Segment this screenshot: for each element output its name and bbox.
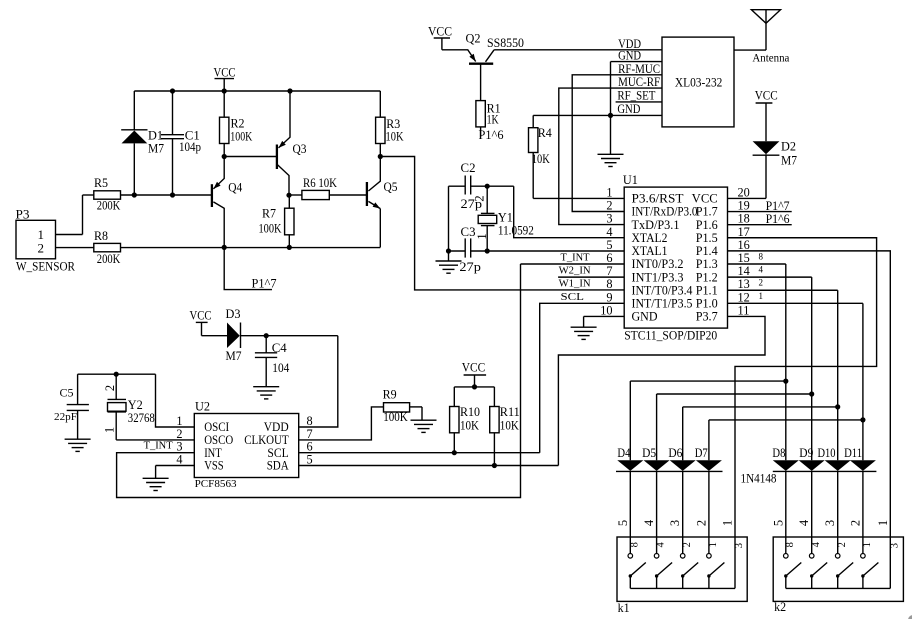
module XL03-232 box <box>662 37 734 127</box>
ground (R9) <box>411 407 437 433</box>
svg-text:4: 4 <box>656 541 667 547</box>
svg-text:8: 8 <box>307 414 313 428</box>
wire XTAL1 rail to U1 pin5 <box>449 250 625 252</box>
svg-text:8: 8 <box>759 252 764 262</box>
ground (U2 VSS) <box>143 478 169 490</box>
wire U1 pin17 to k1 common <box>728 238 877 537</box>
net label T_INT (U1 pin6) <box>561 252 590 264</box>
svg-text:2: 2 <box>848 520 862 526</box>
wire U1 pin10 GND <box>584 316 625 327</box>
junction Q3-collector/R6/R7 <box>286 193 291 198</box>
svg-text:200K: 200K <box>97 198 121 213</box>
crystal Y2 32768 <box>103 374 155 440</box>
wire MUC-RF to U1 pin3 <box>559 88 662 225</box>
junction R2/Q4/Q3-base <box>222 154 227 159</box>
svg-text:2: 2 <box>606 199 612 213</box>
wire GND1 to ground <box>610 62 612 155</box>
svg-text:14: 14 <box>738 264 750 278</box>
switch block k1 box <box>617 537 747 615</box>
switch block k1 internals <box>628 537 745 588</box>
diode D4 1N4148 <box>617 445 643 537</box>
svg-text:2: 2 <box>759 278 764 288</box>
IC U1 subtitle <box>624 329 717 343</box>
junction VCC/R10/R11 <box>472 384 477 389</box>
diode D7 1N4148 <box>695 445 722 537</box>
svg-text:8: 8 <box>629 542 640 547</box>
capacitor C4 104 <box>255 336 290 387</box>
junction Q4/bottom-rail/P1^7 <box>222 245 227 250</box>
svg-text:U2: U2 <box>195 399 210 414</box>
junction rail/C1 <box>170 88 175 93</box>
node P1^7 label (pin19) <box>766 198 790 213</box>
diode D1 <box>121 91 164 195</box>
wire RF-MUC to U1 pin2 <box>572 75 662 212</box>
switch block k2 box <box>773 537 903 614</box>
antenna <box>734 10 790 65</box>
svg-text:P1.5: P1.5 <box>696 231 718 245</box>
svg-text:P3.7: P3.7 <box>696 310 718 324</box>
svg-text:3: 3 <box>734 543 745 548</box>
svg-text:SS8550: SS8550 <box>487 35 524 50</box>
svg-text:PCF8563: PCF8563 <box>195 478 237 490</box>
node P1^7 label <box>252 276 277 291</box>
junction R10/SCL <box>452 450 457 455</box>
svg-text:1: 1 <box>103 427 117 433</box>
pin RF-MUC label <box>618 61 660 76</box>
svg-text:D8: D8 <box>772 445 785 460</box>
wire rail to U2 pin1 OSCI <box>156 374 195 427</box>
label 1N4148 <box>741 472 777 486</box>
svg-text:7: 7 <box>606 264 612 278</box>
junction R7/bottom-rail <box>287 245 292 250</box>
wire W2_IN stub <box>558 276 624 278</box>
svg-text:INT/RxD/P3.0: INT/RxD/P3.0 <box>632 205 698 219</box>
svg-text:27p: 27p <box>459 259 481 274</box>
IC U1 pin-name texts <box>632 192 718 324</box>
svg-text:10K: 10K <box>460 418 480 433</box>
pin MUC-RF label <box>618 74 660 89</box>
svg-text:T_INT: T_INT <box>144 439 173 451</box>
svg-text:32768: 32768 <box>128 411 155 425</box>
svg-text:2: 2 <box>473 195 487 201</box>
svg-text:1: 1 <box>708 542 719 547</box>
resistor R9 100K <box>383 387 422 424</box>
svg-text:2: 2 <box>38 240 45 255</box>
svg-text:1: 1 <box>176 414 182 428</box>
svg-text:M7: M7 <box>226 348 242 363</box>
capacitor C5 22pF <box>54 374 89 439</box>
net label W2_IN (U1 pin7) <box>559 265 591 277</box>
svg-text:INT/T1/P3.5: INT/T1/P3.5 <box>632 297 693 311</box>
svg-text:C5: C5 <box>60 388 74 400</box>
pin RF_SET label <box>617 88 655 103</box>
resistor R4 10K <box>529 115 553 198</box>
junction C3/ground <box>446 248 451 253</box>
svg-text:VSS: VSS <box>204 459 224 473</box>
diode D9 1N4148 <box>799 445 825 537</box>
resistor R1 1K <box>476 100 501 137</box>
svg-text:k2: k2 <box>774 599 786 614</box>
svg-text:D3: D3 <box>226 306 241 321</box>
wire U1 pin18 <box>728 224 792 226</box>
svg-text:4: 4 <box>176 453 182 467</box>
connector P3 W_SENSOR <box>16 207 76 274</box>
wire Y2 top rail <box>78 373 156 375</box>
svg-text:10: 10 <box>600 303 612 317</box>
svg-text:P1^6: P1^6 <box>766 211 790 226</box>
svg-text:1: 1 <box>759 291 764 301</box>
wire SCL U1 pin9 to U2 <box>540 303 625 452</box>
junction rail/R2 <box>222 88 227 93</box>
svg-text:10K: 10K <box>532 151 550 166</box>
IC U1 bit-weight labels 8/4/2/1 <box>759 252 764 301</box>
svg-text:M7: M7 <box>781 153 797 168</box>
junction Y1/XTAL1 rail <box>485 248 490 253</box>
wire R2 to Q3 base <box>224 156 276 158</box>
IC U2 subtitle <box>195 478 237 490</box>
wire U1 pin11 P3.7 to SDA <box>558 316 765 465</box>
svg-text:4: 4 <box>759 265 764 275</box>
svg-text:P1.6: P1.6 <box>696 218 718 232</box>
svg-text:100K: 100K <box>383 409 408 424</box>
junction pin15 branch <box>783 379 788 384</box>
wire P3 pin1 to R5 <box>56 234 83 236</box>
svg-text:R9: R9 <box>383 387 397 402</box>
svg-text:W1_IN: W1_IN <box>559 278 591 290</box>
svg-text:D10: D10 <box>818 445 836 460</box>
svg-text:Q2: Q2 <box>466 31 481 46</box>
junction pin12 branch <box>860 417 865 422</box>
ground (U1 pin10) <box>571 327 597 339</box>
svg-text:Q3: Q3 <box>293 141 307 156</box>
svg-text:Y2: Y2 <box>128 397 143 412</box>
svg-text:R5: R5 <box>94 175 108 190</box>
svg-text:k1: k1 <box>618 600 630 615</box>
svg-text:10K: 10K <box>500 418 520 433</box>
IC U1 pin numbers <box>600 185 750 317</box>
svg-text:16: 16 <box>738 238 750 252</box>
svg-text:4: 4 <box>797 519 811 526</box>
svg-text:T_INT: T_INT <box>561 252 590 264</box>
net label W1_IN (U1 pin8) <box>559 278 591 290</box>
svg-text:2: 2 <box>694 520 708 526</box>
svg-text:TxD/P3.1: TxD/P3.1 <box>632 218 680 232</box>
junction pin13 branch <box>835 404 840 409</box>
svg-text:P1.3: P1.3 <box>696 257 718 271</box>
resistor R7 100K <box>259 195 295 247</box>
svg-text:INT0/P3.2: INT0/P3.2 <box>632 257 684 271</box>
svg-text:100K: 100K <box>259 221 282 236</box>
svg-text:P1.1: P1.1 <box>696 283 718 297</box>
ground (C4) <box>253 387 279 399</box>
svg-text:104: 104 <box>272 360 289 375</box>
resistor R11 10K <box>490 387 520 466</box>
junction D1/base-wire <box>132 192 137 197</box>
IC U1 STC11 box <box>623 172 728 328</box>
svg-text:GND: GND <box>632 310 658 324</box>
wire SCL line U2 pin6 <box>299 452 540 454</box>
svg-text:P1^6: P1^6 <box>479 127 504 142</box>
pin VDD label <box>618 36 641 51</box>
svg-text:18: 18 <box>738 212 750 226</box>
svg-text:R4: R4 <box>538 125 552 140</box>
resistor R2 100K <box>220 91 253 157</box>
diode D5 1N4148 <box>642 445 670 537</box>
ground (C5) <box>65 439 91 451</box>
switch block k2 internals <box>784 537 901 588</box>
wire P1^7 stub <box>224 248 272 290</box>
transistor Q5 <box>367 157 398 248</box>
svg-text:11: 11 <box>738 303 750 317</box>
svg-text:P1.4: P1.4 <box>696 244 718 258</box>
svg-text:GND: GND <box>617 101 640 116</box>
svg-text:SDA: SDA <box>267 459 289 473</box>
svg-text:3: 3 <box>889 543 900 548</box>
svg-text:5: 5 <box>606 238 612 252</box>
junction Y2 rail <box>114 372 119 377</box>
svg-text:Y1: Y1 <box>498 210 513 225</box>
diode D8 1N4148 <box>772 445 798 537</box>
net label SCL (U1 pin9) <box>561 291 585 303</box>
net label T_INT (U2 pin3) <box>144 439 173 451</box>
svg-text:P3.6/RST: P3.6/RST <box>632 192 685 206</box>
pin GND label (upper) <box>618 48 641 63</box>
svg-text:12: 12 <box>738 290 750 304</box>
power VCC symbol (Q2) <box>428 23 452 50</box>
junction R3/Q5/W1_IN <box>378 154 383 159</box>
capacitor C1 <box>161 91 201 195</box>
svg-text:D9: D9 <box>799 445 813 460</box>
junction GND wires <box>608 113 613 118</box>
wire RF_SET stub <box>616 101 662 103</box>
svg-text:U1: U1 <box>623 172 638 187</box>
svg-text:W2_IN: W2_IN <box>559 265 591 277</box>
svg-text:3: 3 <box>606 212 612 226</box>
svg-text:P1.2: P1.2 <box>696 270 718 284</box>
svg-text:8: 8 <box>785 542 796 547</box>
wire U1 pin14 to diode columns <box>657 277 812 460</box>
svg-text:19: 19 <box>738 199 750 213</box>
wire C2/C3 left leg <box>448 186 450 251</box>
svg-text:4: 4 <box>811 541 822 547</box>
svg-text:200K: 200K <box>97 251 121 266</box>
svg-text:3: 3 <box>823 520 837 526</box>
svg-text:2: 2 <box>103 385 117 391</box>
svg-text:1: 1 <box>862 542 873 547</box>
wire T_INT U2 pin3 loop to U1 <box>117 264 521 498</box>
power VCC symbol (D3) <box>190 307 212 335</box>
svg-text:C3: C3 <box>461 224 476 239</box>
svg-text:STC11_SOP/DIP20: STC11_SOP/DIP20 <box>624 329 717 343</box>
wire GND2 pin to R4 <box>533 114 662 116</box>
svg-text:Antenna: Antenna <box>752 51 790 65</box>
svg-text:D2: D2 <box>781 139 796 154</box>
node P1^6 label (R1) <box>479 127 504 142</box>
svg-text:1: 1 <box>876 520 890 526</box>
wire R3 junction to U1 pin8 W1_IN <box>380 157 624 290</box>
svg-text:R6 10K: R6 10K <box>303 175 338 190</box>
resistor R8 200K <box>56 228 381 266</box>
svg-text:1N4148: 1N4148 <box>741 472 777 486</box>
svg-text:R7: R7 <box>262 205 276 220</box>
svg-text:D4: D4 <box>617 445 630 460</box>
svg-text:W_SENSOR: W_SENSOR <box>16 259 76 273</box>
svg-text:VCC: VCC <box>190 307 212 322</box>
svg-text:11.0592: 11.0592 <box>498 224 534 238</box>
svg-text:VCC: VCC <box>692 192 718 206</box>
wire C2 to U1 pin4 XTAL2 <box>514 186 625 238</box>
page corner artifact <box>908 615 912 619</box>
svg-text:INT1/P3.3: INT1/P3.3 <box>632 270 684 284</box>
svg-text:22pF: 22pF <box>54 412 77 423</box>
svg-text:1: 1 <box>606 185 612 199</box>
svg-text:P1.0: P1.0 <box>696 297 718 311</box>
svg-text:5: 5 <box>307 453 313 467</box>
svg-text:D6: D6 <box>668 445 682 460</box>
junction D3/C4 <box>264 333 269 338</box>
svg-text:13: 13 <box>738 277 750 291</box>
wire U1 pin20 VCC <box>728 197 767 199</box>
pin GND label (lower) <box>617 101 640 116</box>
crystal Y1 11.0592 <box>473 186 534 251</box>
svg-text:104p: 104p <box>179 139 201 154</box>
wire VCC rail top-left <box>134 90 380 92</box>
svg-text:2: 2 <box>682 542 693 547</box>
wire T_INT U1 pin6 <box>521 263 625 265</box>
svg-text:OSCI: OSCI <box>204 420 229 434</box>
svg-text:VDD: VDD <box>264 420 289 434</box>
IC U2 PCF8563 box <box>194 399 298 478</box>
svg-text:4: 4 <box>606 225 612 239</box>
svg-text:3: 3 <box>176 440 182 454</box>
wire D8-D11 cathode bar <box>773 470 877 472</box>
svg-text:17: 17 <box>738 225 750 239</box>
node P1^6 label (pin18) <box>766 211 790 226</box>
diode D3 <box>202 306 242 363</box>
svg-text:1: 1 <box>721 520 735 526</box>
capacitor C2 27p <box>449 160 514 211</box>
diode D2 <box>753 139 798 199</box>
svg-text:15: 15 <box>738 251 750 265</box>
wire Q2 collector to XL03 VDD <box>494 49 662 51</box>
wire U1 pin12 to diode columns <box>709 303 863 460</box>
svg-text:20: 20 <box>738 185 750 199</box>
svg-text:D5: D5 <box>642 445 656 460</box>
junction pin14 branch <box>809 391 814 396</box>
pin number labels above k1 <box>616 519 735 526</box>
wire U1 pin19 <box>728 211 792 213</box>
svg-text:D7: D7 <box>695 445 708 460</box>
resistor R6 10K <box>289 175 366 200</box>
svg-text:INT/T0/P3.4: INT/T0/P3.4 <box>632 283 693 297</box>
wire VCC to R10 R11 tops <box>454 386 494 388</box>
wire SDA line U2 pin5 <box>299 465 559 467</box>
svg-text:M7: M7 <box>148 141 164 156</box>
svg-text:Q5: Q5 <box>384 179 398 194</box>
resistor R3 10K <box>376 91 404 157</box>
transistor Q4 <box>212 157 243 248</box>
power VCC symbol (D2) <box>755 87 778 141</box>
wire U2 pin7 CLKOUT to R9 <box>299 407 384 440</box>
svg-text:XTAL2: XTAL2 <box>632 231 668 245</box>
svg-text:1: 1 <box>475 233 489 239</box>
svg-text:P3: P3 <box>16 207 30 222</box>
svg-text:XTAL1: XTAL1 <box>632 244 668 258</box>
svg-text:P1.7: P1.7 <box>696 205 718 219</box>
svg-text:2: 2 <box>837 542 848 547</box>
resistor R5 200K <box>83 175 212 235</box>
wire D4-D7 cathode bar <box>616 470 723 472</box>
junction R11/SDA <box>492 463 497 468</box>
IC U2 pin numbers <box>176 414 312 467</box>
svg-text:3: 3 <box>668 520 682 526</box>
svg-text:C2: C2 <box>461 160 476 175</box>
transistor Q2 SS8550 <box>442 31 524 101</box>
svg-text:100K: 100K <box>230 128 252 143</box>
svg-text:10K: 10K <box>386 128 404 143</box>
wire U1 pin13 to diode columns <box>683 290 838 460</box>
capacitor C3 27p <box>459 224 481 274</box>
ground (XL03) <box>598 154 624 166</box>
svg-text:9: 9 <box>606 290 612 304</box>
diode D11 1N4148 <box>844 445 876 537</box>
svg-text:C4: C4 <box>272 340 287 355</box>
svg-text:5: 5 <box>616 520 630 526</box>
wire D3 to U2 pin8 VDD <box>241 336 338 427</box>
diode D6 1N4148 <box>668 445 695 537</box>
svg-text:5: 5 <box>771 520 785 526</box>
pin number labels above k2 <box>771 519 890 526</box>
wire U1 pin16 to k2 common <box>728 251 891 537</box>
svg-text:1K: 1K <box>487 112 499 127</box>
power VCC symbol (R10/R11) <box>462 360 486 387</box>
svg-text:VCC: VCC <box>214 65 236 80</box>
wire R4 to U1 pin1 <box>533 197 624 199</box>
svg-text:R8: R8 <box>94 228 108 243</box>
junction rail/Q3 <box>287 88 292 93</box>
svg-text:4: 4 <box>642 519 656 526</box>
transistor Q3 <box>277 91 307 195</box>
svg-text:6: 6 <box>606 251 612 265</box>
junction C1/base-wire <box>170 192 175 197</box>
svg-text:VCC: VCC <box>755 87 778 102</box>
wire U1 pin15 to diode columns <box>630 264 786 460</box>
svg-text:Q4: Q4 <box>228 179 242 194</box>
ground (C3) <box>436 251 462 273</box>
wire U2 pin4 VSS to ground <box>156 466 195 479</box>
svg-text:P1^7: P1^7 <box>252 276 277 291</box>
power VCC symbol (top-left rail) <box>214 65 236 92</box>
wire GND1 pin <box>611 61 663 63</box>
IC U2 pin-name texts <box>204 420 289 473</box>
svg-text:VCC: VCC <box>462 360 486 375</box>
wire Y2 to U2 pin2 OSCO <box>116 439 194 441</box>
diode D10 1N4148 <box>818 445 851 537</box>
svg-text:D11: D11 <box>844 445 862 460</box>
junction C2/Y1 <box>485 184 490 189</box>
resistor R10 10K <box>450 387 480 453</box>
svg-text:SCL: SCL <box>561 291 585 303</box>
svg-text:XL03-232: XL03-232 <box>675 74 723 89</box>
svg-text:8: 8 <box>606 277 612 291</box>
svg-text:VCC: VCC <box>428 23 452 38</box>
